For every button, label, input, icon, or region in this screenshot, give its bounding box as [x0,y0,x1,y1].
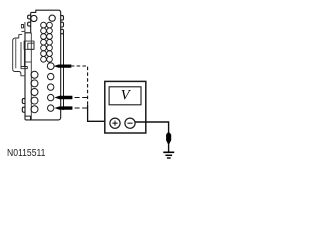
left wall step tick [25,61,31,63]
housing right outer rail [63,34,65,110]
dashed lead from probe 3 [75,107,88,109]
bracket bottom hook [15,72,24,76]
pivot inner rect [28,43,34,49]
bottom-left foot box [25,116,31,120]
latch top hook [16,35,23,38]
bracket vertical pin line [24,22,26,41]
wire from minus terminal to ground [135,122,169,152]
solid lead to meter [88,105,110,121]
ground symbol [163,151,174,153]
ground probe blob [166,133,171,144]
bracket spine inner [15,39,17,69]
right edge bump 1 [61,16,64,21]
left edge bump 2 [28,22,31,26]
pivot box [24,41,34,49]
top pin circle right [49,15,55,21]
dashed lead from probe 2 [75,97,88,99]
connector housing outline [25,10,61,120]
channel cap [21,67,27,69]
probe 1 (black arrow at pin) [54,65,72,68]
right edge bump 3 [61,29,64,34]
right sparse pin column [47,63,54,112]
dashed lead from probe 1 [71,65,88,67]
channel mid line [23,49,25,66]
probe 3 [54,106,72,109]
housing inner wall line [30,33,32,119]
probe 2 [54,96,72,99]
top pin circle left [31,15,37,21]
plus terminal [110,118,120,128]
dense pin grid (2 cols x 7 rows) [41,22,53,62]
bracket small box top [21,25,23,28]
bracket spine [13,38,16,72]
left sparse pin column [31,71,38,112]
bracket tick [21,30,25,32]
left edge bump 1 [28,15,31,19]
right edge bump 2 [61,22,64,27]
channel left line [20,42,22,67]
latch bracket assembly (left side) [13,22,34,76]
figure label [7,148,45,159]
left lower bump 1 [22,99,25,104]
dashed vertical lead [87,67,89,105]
left lower bump 2 [22,107,25,112]
minus terminal [125,118,135,128]
voltmeter body [105,81,146,133]
voltmeter display [109,87,141,105]
